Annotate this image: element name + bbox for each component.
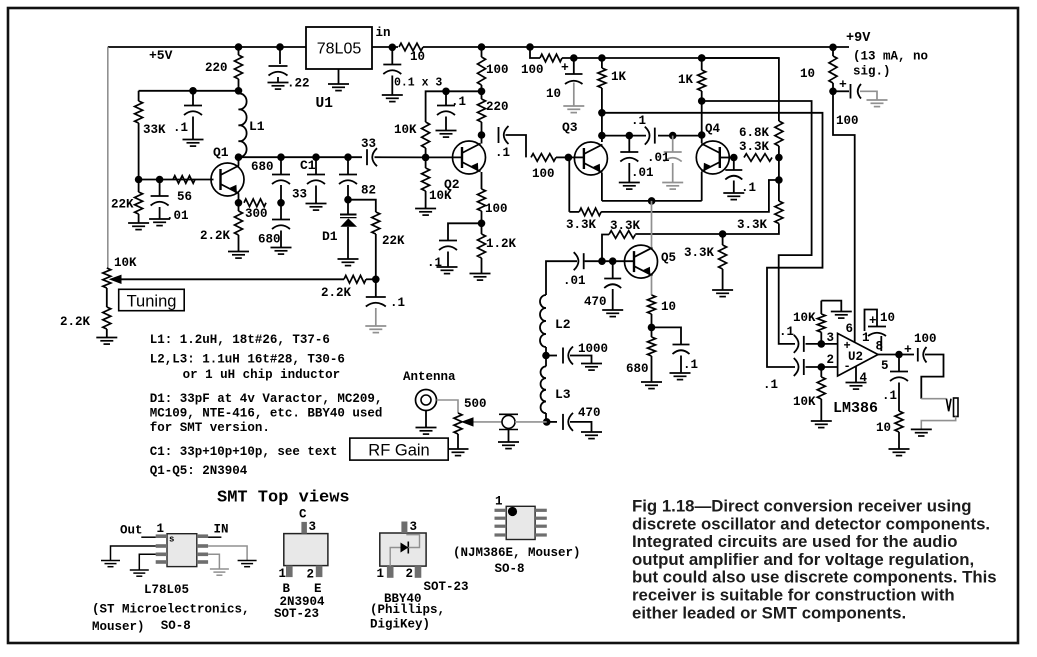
- label 680 upper: [251, 160, 274, 174]
- node Q2 collector: [478, 131, 486, 139]
- capacitor 680 upper: [272, 157, 290, 184]
- svg-text:MC109, NTE-416, etc. BBY40 use: MC109, NTE-416, etc. BBY40 used: [150, 407, 383, 421]
- node subrail 702: [698, 54, 706, 62]
- svg-text:3: 3: [309, 520, 317, 534]
- svg-text:or 1 uH chip inductor: or 1 uH chip inductor: [183, 368, 341, 382]
- svg-text:56: 56: [177, 190, 192, 204]
- label 300: [245, 207, 268, 221]
- svg-text:Tuning: Tuning: [127, 293, 177, 311]
- wire Q2 emitter: [481, 172, 483, 189]
- svg-text:+: +: [839, 77, 847, 92]
- wire Q5 collector: [651, 201, 653, 248]
- svg-text:LM386: LM386: [833, 400, 878, 417]
- node antenna feed: [543, 418, 551, 426]
- label L1: [249, 119, 265, 134]
- node 100/220: [478, 88, 486, 96]
- node rail 530: [526, 43, 534, 51]
- resistor 10K upper Q2: [422, 91, 482, 157]
- capacitor .1 pin2: [794, 358, 804, 376]
- capacitor .01 det left: [620, 136, 638, 162]
- svg-text:33: 33: [292, 188, 307, 202]
- label 680 Q5: [626, 362, 649, 376]
- svg-text:.1: .1: [763, 378, 778, 392]
- capacitor 82 coupling: [339, 157, 357, 184]
- capacitor .1 Q2 bypass: [439, 241, 457, 251]
- svg-text:1: 1: [495, 495, 503, 509]
- label 680 lower: [258, 233, 281, 247]
- svg-text:1.2K: 1.2K: [486, 237, 517, 251]
- svg-text:sig.): sig.): [853, 65, 891, 79]
- node .01 junction: [156, 176, 164, 184]
- node Q5 emitter junction: [648, 324, 656, 332]
- wire pin5 out: [878, 354, 902, 356]
- label pin3: [827, 331, 835, 345]
- label 100 output: [914, 332, 937, 346]
- label D1: [322, 229, 338, 244]
- ground 2.2K Q1: [228, 252, 249, 259]
- svg-text:.1: .1: [173, 121, 188, 135]
- svg-text:L1: 1.2uH, 18t#26, T37-6: L1: 1.2uH, 18t#26, T37-6: [150, 333, 330, 347]
- label 2N3904: [280, 595, 326, 609]
- svg-text:22K: 22K: [382, 234, 405, 248]
- ground 470 ant: [581, 432, 602, 439]
- SMT L78L05 body: [167, 534, 197, 567]
- label 2 2N3904: [307, 568, 315, 582]
- wire route pin3: [702, 101, 812, 344]
- label E: [314, 582, 322, 596]
- label SOT-23 a: [274, 607, 319, 621]
- transistor Q3: [574, 142, 607, 175]
- regulator U1 box 78L05: [306, 27, 372, 69]
- label 22K varactor: [382, 234, 405, 248]
- capacitor .01 det right: [664, 136, 682, 162]
- svg-text:IN: IN: [214, 523, 229, 537]
- wire L2-L3: [545, 347, 547, 366]
- svg-text:+5V: +5V: [149, 48, 173, 63]
- node left rail corner / wire down to tuning pot: [107, 47, 109, 268]
- node det .01 right: [669, 132, 677, 140]
- ground L78L05 c: [238, 561, 257, 567]
- svg-text:10: 10: [880, 311, 895, 325]
- SMT BBY40 pins: [387, 522, 421, 578]
- svg-text:(ST Microelectronics,: (ST Microelectronics,: [92, 603, 250, 617]
- label 1 BBY40: [377, 567, 385, 581]
- svg-text:3.3K: 3.3K: [739, 140, 770, 154]
- label Q2: [444, 177, 460, 192]
- node 220/L1: [235, 87, 243, 95]
- resistor 6.8K: [775, 121, 783, 158]
- ground antenna jack: [416, 411, 437, 435]
- svg-text:.1: .1: [390, 296, 405, 310]
- label 3.3K vertical: [737, 218, 768, 232]
- svg-text:100: 100: [532, 167, 555, 181]
- box RF Gain: [350, 438, 448, 460]
- ground .1 Q2 bypass: [437, 252, 458, 274]
- label 10K pin3: [793, 311, 816, 325]
- resistor 100 Q3 base: [531, 154, 568, 162]
- label 2.2K below pot: [60, 315, 91, 329]
- label 3 2N3904: [309, 520, 317, 534]
- wire output to jack: [902, 355, 944, 399]
- label .01 det left: [631, 166, 654, 180]
- label +5V: [149, 48, 173, 63]
- svg-text:2.2K: 2.2K: [321, 286, 352, 300]
- resistor 1K Q4: [698, 54, 706, 101]
- label 82: [361, 184, 376, 198]
- capacitor 1000: [546, 347, 573, 365]
- wire pin3: [806, 343, 838, 345]
- capacitor .1 bias Q1: [184, 91, 202, 115]
- label L3: [555, 387, 571, 402]
- label 10K lower Q2: [429, 189, 452, 203]
- resistor 10 Q5: [648, 295, 656, 327]
- svg-text:100: 100: [485, 202, 508, 216]
- resistor 300: [244, 199, 266, 207]
- wire 1000 gnd: [570, 356, 592, 364]
- svg-text:.1: .1: [683, 358, 698, 372]
- capacitor .01 Q1: [151, 180, 169, 206]
- label BBY40: [384, 592, 422, 606]
- label .01 det right: [647, 151, 670, 165]
- label 3.3K Q5 base: [610, 219, 641, 233]
- ground jack: [911, 429, 932, 436]
- label ST Micro: [92, 603, 250, 617]
- label SO-8 a: [161, 619, 191, 633]
- ground 470 Q5 base: [602, 289, 623, 317]
- label 10K tuning: [114, 256, 137, 270]
- svg-text:1K: 1K: [678, 73, 694, 87]
- label C1: [300, 158, 316, 173]
- svg-text:33K: 33K: [143, 123, 166, 137]
- ground 1000: [581, 364, 602, 371]
- node Q5 base 602: [598, 257, 606, 265]
- svg-text:in: in: [376, 26, 391, 40]
- wire Q4 emitter: [701, 172, 703, 201]
- svg-text:78L05: 78L05: [317, 41, 362, 58]
- wire antenna to pot: [437, 400, 459, 413]
- wire 100 cap gnd: [860, 91, 877, 99]
- feedthrough capacitor: [499, 414, 518, 429]
- wire 10K pin3 gnd hook: [821, 301, 841, 311]
- resistor 10K pin2: [817, 367, 825, 421]
- node Q1 emitter: [235, 199, 243, 207]
- wire Q3 base bar: [568, 156, 584, 158]
- svg-text:1: 1: [862, 331, 870, 345]
- label SO-8 b: [495, 562, 525, 576]
- node pin2: [818, 363, 826, 371]
- wire det bus right: [658, 135, 702, 137]
- label pin5: [881, 359, 889, 373]
- wire jack sleeve: [921, 417, 955, 429]
- label 100 Q2 emitter: [485, 202, 508, 216]
- wire 348 to D1 node: [347, 185, 349, 200]
- svg-text:300: 300: [245, 207, 268, 221]
- label Mouser: [92, 620, 145, 634]
- svg-text:(Phillips,: (Phillips,: [370, 603, 445, 617]
- resistor 2.2K tuning: [344, 276, 376, 284]
- capacitor .1 Q5: [673, 345, 690, 355]
- svg-text:.01: .01: [631, 166, 654, 180]
- note L2L3: [150, 353, 345, 367]
- wire osc bus: [239, 156, 363, 158]
- svg-text:2: 2: [307, 568, 315, 582]
- label 1 2N3904: [279, 567, 287, 581]
- label Phillips: [370, 603, 445, 617]
- svg-text:1: 1: [157, 522, 165, 536]
- label 13mA line1: [853, 50, 928, 64]
- capacitor 10 gain pins: [865, 310, 887, 352]
- wire out pin: [141, 536, 155, 538]
- svg-text:220: 220: [486, 100, 509, 114]
- capacitor 33 series: [367, 148, 377, 166]
- svg-text:SO-8: SO-8: [161, 619, 191, 633]
- svg-text:L1: L1: [249, 119, 265, 134]
- svg-text:1K: 1K: [611, 70, 627, 84]
- wire Q1 emitter: [238, 194, 240, 203]
- svg-text:.1: .1: [495, 146, 510, 160]
- inductor L2: [540, 295, 546, 347]
- diode D1 varactor: [340, 200, 357, 259]
- label .1 Q2 bypass: [427, 256, 442, 270]
- svg-text:.1: .1: [779, 325, 794, 339]
- node rail 481: [478, 43, 486, 51]
- svg-text:100: 100: [914, 332, 937, 346]
- svg-text:for SMT version.: for SMT version.: [150, 421, 270, 435]
- label + input: [844, 339, 851, 353]
- label B: [283, 582, 291, 596]
- label pin2: [827, 353, 835, 367]
- svg-text:100: 100: [836, 114, 859, 128]
- label U1: [316, 96, 334, 112]
- svg-text:10: 10: [876, 421, 891, 435]
- label pin4: [860, 371, 868, 385]
- svg-text:.1: .1: [427, 256, 442, 270]
- SMT NJM386 pins: [495, 509, 547, 537]
- wire Q3 coll: [601, 113, 603, 142]
- svg-text:2: 2: [406, 567, 414, 581]
- ground .01 det left: [619, 163, 640, 189]
- svg-text:Integrated circuits are used f: Integrated circuits are used for the aud…: [632, 532, 957, 551]
- label 10 Q5: [661, 300, 676, 314]
- capacitor .1 Q4: [725, 158, 742, 180]
- wire emitter bypass: [448, 223, 482, 240]
- node Q5 base 613: [609, 257, 617, 265]
- capacitor C1 33: [307, 157, 325, 184]
- label 3.3K Q4base: [739, 140, 770, 154]
- label 500: [464, 397, 487, 411]
- svg-text:680: 680: [251, 160, 274, 174]
- label 10 series: [410, 50, 425, 64]
- wire audio V+ route: [833, 91, 855, 342]
- label SOT-23 b: [424, 580, 469, 594]
- svg-text:output amplifier and for volta: output amplifier and for voltage regulat…: [632, 550, 974, 569]
- resistor 3.3K to gnd: [719, 234, 727, 290]
- label 1.2K: [486, 237, 517, 251]
- svg-text:10K: 10K: [394, 123, 417, 137]
- label .01 mixer: [563, 274, 586, 288]
- svg-text:100: 100: [521, 63, 544, 77]
- svg-text:500: 500: [464, 397, 487, 411]
- node pin3: [818, 340, 826, 348]
- capacitor .22: [269, 66, 288, 76]
- svg-text:E: E: [314, 582, 322, 596]
- note C1: [150, 445, 338, 459]
- note Q1-Q5: [150, 464, 248, 478]
- label pin1: [862, 331, 870, 345]
- resistor 22K Q1: [135, 180, 143, 223]
- svg-text:.01: .01: [166, 209, 189, 223]
- label Q5: [661, 251, 676, 265]
- label 2 BBY40: [406, 567, 414, 581]
- wire 778 157-180: [778, 158, 780, 181]
- capacitor 680 lower: [272, 220, 290, 230]
- svg-text:470: 470: [584, 295, 607, 309]
- label 10K pin2: [793, 395, 816, 409]
- label 470 ant: [578, 406, 601, 420]
- wire common emitter bus: [602, 200, 702, 202]
- node Q1 base left: [135, 176, 143, 184]
- node 9V filtered: [829, 88, 837, 96]
- svg-text:3.3K: 3.3K: [684, 246, 715, 260]
- label 0.1 x 3: [394, 77, 442, 90]
- svg-text:SOT-23: SOT-23: [424, 580, 469, 594]
- svg-text:10K: 10K: [114, 256, 137, 270]
- svg-text:3: 3: [827, 331, 835, 345]
- transistor Q1: [211, 163, 244, 196]
- resistor 2.2K Q1: [235, 203, 243, 251]
- label 100 subrail: [521, 63, 544, 77]
- svg-text:680: 680: [626, 362, 649, 376]
- capacitor .1 tuning: [366, 279, 386, 306]
- label 33K: [143, 123, 166, 137]
- svg-text:10: 10: [546, 87, 561, 101]
- label 2.2K tuning: [321, 286, 352, 300]
- caption text: [632, 497, 997, 623]
- resistor 680 Q5: [648, 327, 656, 381]
- note chip inductor: [183, 368, 341, 382]
- wire Q3 emitter: [601, 173, 603, 201]
- node .1 Q2 bias: [442, 88, 450, 96]
- wire pin2: [806, 366, 838, 368]
- svg-text:0.1 x 3: 0.1 x 3: [394, 77, 442, 90]
- wire route pin2: [602, 113, 823, 367]
- label 33 C1: [292, 188, 307, 202]
- SMT NJM386 body: [506, 506, 535, 539]
- svg-text:5: 5: [881, 359, 889, 373]
- label Out: [120, 524, 143, 538]
- label 56: [177, 190, 192, 204]
- ground tuning pot: [96, 338, 117, 345]
- svg-text:.1: .1: [741, 181, 756, 195]
- label 10 zobel: [876, 421, 891, 435]
- capacitor 0.1 input: [383, 47, 401, 74]
- capacitor 10 electrolytic: [561, 58, 583, 84]
- node bus 281: [277, 153, 285, 161]
- resistor 10K pin3: [817, 301, 825, 344]
- svg-text:.22: .22: [287, 77, 310, 91]
- label .1 zobel: [882, 389, 897, 403]
- resistor 2.2K below pot: [103, 307, 111, 337]
- ground 10K lower Q2: [415, 209, 436, 216]
- label in: [376, 26, 391, 40]
- svg-text:RF Gain: RF Gain: [368, 442, 429, 460]
- svg-text:6.8K: 6.8K: [739, 126, 770, 140]
- wire in pin: [208, 536, 221, 538]
- node Q3 coll 113: [598, 109, 606, 117]
- wire Q1 base: [139, 179, 214, 181]
- wire bias to Q3 base: [601, 180, 779, 212]
- resistor 3.3K Q4 base: [744, 154, 772, 162]
- label 3 BBY40: [410, 520, 418, 534]
- ground pin4: [846, 366, 867, 389]
- wire D1 to 22K: [348, 200, 376, 212]
- svg-text:470: 470: [578, 406, 601, 420]
- label 100 Q2 collector: [486, 63, 509, 77]
- wire Q4 base bar: [720, 157, 734, 159]
- svg-text:D1: 33pF at 4v Varactor, MC209: D1: 33pF at 4v Varactor, MC209,: [150, 392, 383, 406]
- resistor 100 subrail: [540, 54, 562, 62]
- wire pin2 gnd: [111, 546, 156, 560]
- label .1 Q4: [741, 181, 756, 195]
- resistor 10 series: [399, 43, 423, 51]
- label 100 Q3 base: [532, 167, 555, 181]
- svg-text:3.3K: 3.3K: [566, 218, 597, 232]
- node 78L05 input: [389, 44, 397, 52]
- label 10 gain cap: [880, 311, 895, 325]
- resistor 22K varactor: [372, 212, 380, 279]
- svg-text:3.3K: 3.3K: [610, 219, 641, 233]
- label .1 tuning: [390, 296, 405, 310]
- node Q4 135: [698, 131, 706, 139]
- wire +9V rail: [423, 46, 849, 48]
- label 10K upper Q2: [394, 123, 417, 137]
- label 33 series: [361, 137, 376, 151]
- svg-text:+: +: [869, 314, 877, 328]
- svg-text:100: 100: [486, 63, 509, 77]
- label 10 +9V: [800, 67, 815, 81]
- wire Q5 emitter: [651, 276, 653, 295]
- wire 470 ant gnd: [570, 422, 592, 432]
- node 778 180: [775, 176, 783, 184]
- svg-text:B: B: [283, 582, 291, 596]
- svg-text:C: C: [299, 508, 307, 522]
- svg-text:+9V: +9V: [846, 31, 871, 46]
- svg-text:1: 1: [279, 567, 287, 581]
- wire Q4 coll: [701, 101, 703, 143]
- svg-text:(13 mA, no: (13 mA, no: [853, 50, 928, 64]
- label +9V: [846, 31, 871, 46]
- svg-text:Fig 1.18—Direct conversion rec: Fig 1.18—Direct conversion receiver usin…: [632, 497, 971, 516]
- label L2: [555, 317, 571, 332]
- NJM386 pin1 dot: [508, 507, 517, 516]
- svg-text:but could also use discrete co: but could also use discrete components. …: [632, 568, 997, 587]
- ground L78L05 b: [130, 570, 149, 576]
- label Q3: [562, 120, 578, 135]
- svg-text:3.3K: 3.3K: [737, 218, 768, 232]
- svg-text:C1: C1: [300, 158, 316, 173]
- resistor 3.3K vertical: [723, 180, 783, 234]
- wire .1 to 100: [506, 135, 527, 157]
- label Q1: [213, 145, 229, 160]
- svg-text:receiver is suitable for const: receiver is suitable for construction wi…: [632, 586, 955, 605]
- label .01 Q1: [166, 209, 189, 223]
- label Antenna: [403, 370, 456, 384]
- note D1 line2: [150, 407, 383, 421]
- node bus C1: [312, 153, 320, 161]
- resistor 1.2K: [478, 223, 486, 273]
- label 1K Q3: [611, 70, 627, 84]
- headphone jack: [946, 398, 958, 417]
